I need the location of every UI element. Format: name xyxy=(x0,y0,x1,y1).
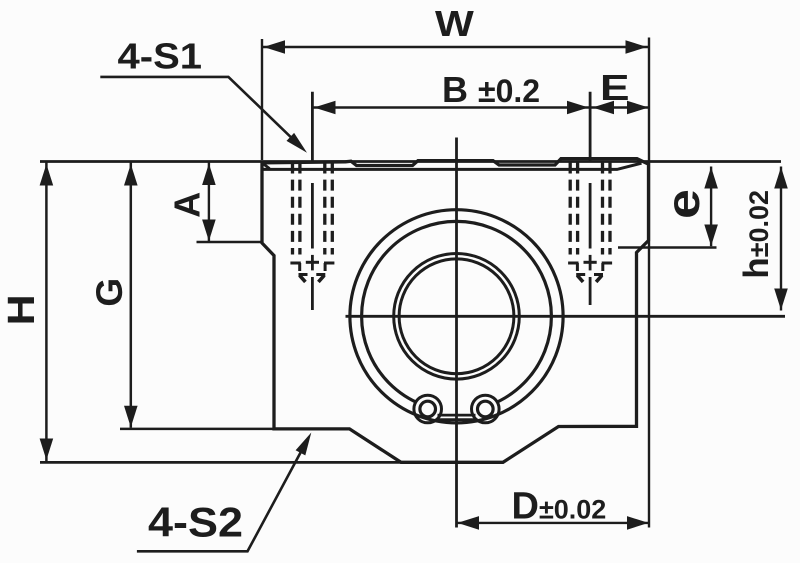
bottom reference line (H bottom extension / foot bottom) xyxy=(40,461,404,464)
top-left corner chamfer xyxy=(263,163,270,168)
svg-text:H: H xyxy=(1,294,43,325)
D dimension xyxy=(457,522,649,524)
svg-text:4-S2: 4-S2 xyxy=(148,499,243,546)
circlip ear holes xyxy=(420,401,436,417)
G dimension xyxy=(130,163,133,428)
left counterbored hole S1 (hidden lines) xyxy=(293,163,333,255)
B dimension xyxy=(312,106,590,108)
circlip gap chords xyxy=(438,414,476,417)
4-S1 leader xyxy=(100,77,300,146)
svg-text:A: A xyxy=(167,192,208,218)
erase ring bottom between circlip ears xyxy=(437,402,476,420)
e dimension xyxy=(710,167,712,247)
left hole centerline xyxy=(311,92,314,310)
svg-text:G: G xyxy=(89,278,130,307)
svg-text:D±0.02: D±0.02 xyxy=(512,486,607,528)
svg-text:E: E xyxy=(600,67,630,108)
circlip ear left xyxy=(414,395,442,423)
top surface inner seam line xyxy=(264,163,642,169)
right hole bottom corners xyxy=(568,262,612,282)
bearing ring circle xyxy=(362,221,552,411)
circlip ear right xyxy=(472,395,500,423)
svg-text:e: e xyxy=(657,189,709,219)
right counterbored hole S1 (hidden lines) xyxy=(570,163,610,255)
A dimension xyxy=(208,163,210,242)
svg-text:h±0.02: h±0.02 xyxy=(737,190,776,279)
housing bore outer circle xyxy=(350,210,563,423)
H dimension xyxy=(45,163,48,462)
svg-text:B ±0.2: B ±0.2 xyxy=(442,69,540,110)
4-S2 leader xyxy=(137,444,305,551)
horizontal centerline xyxy=(346,315,786,318)
top reference line (H/h top extension) xyxy=(40,160,781,163)
W dimension xyxy=(261,39,263,160)
vertical centerline xyxy=(455,138,458,528)
svg-text:4-S1: 4-S1 xyxy=(118,35,203,76)
svg-text:W: W xyxy=(435,3,474,44)
bore circles xyxy=(394,253,520,379)
right hole centerline xyxy=(589,92,592,305)
housing body outline xyxy=(262,159,649,463)
h dimension xyxy=(780,167,782,311)
left hole bottom corners xyxy=(290,262,334,282)
E dimension xyxy=(590,106,649,108)
